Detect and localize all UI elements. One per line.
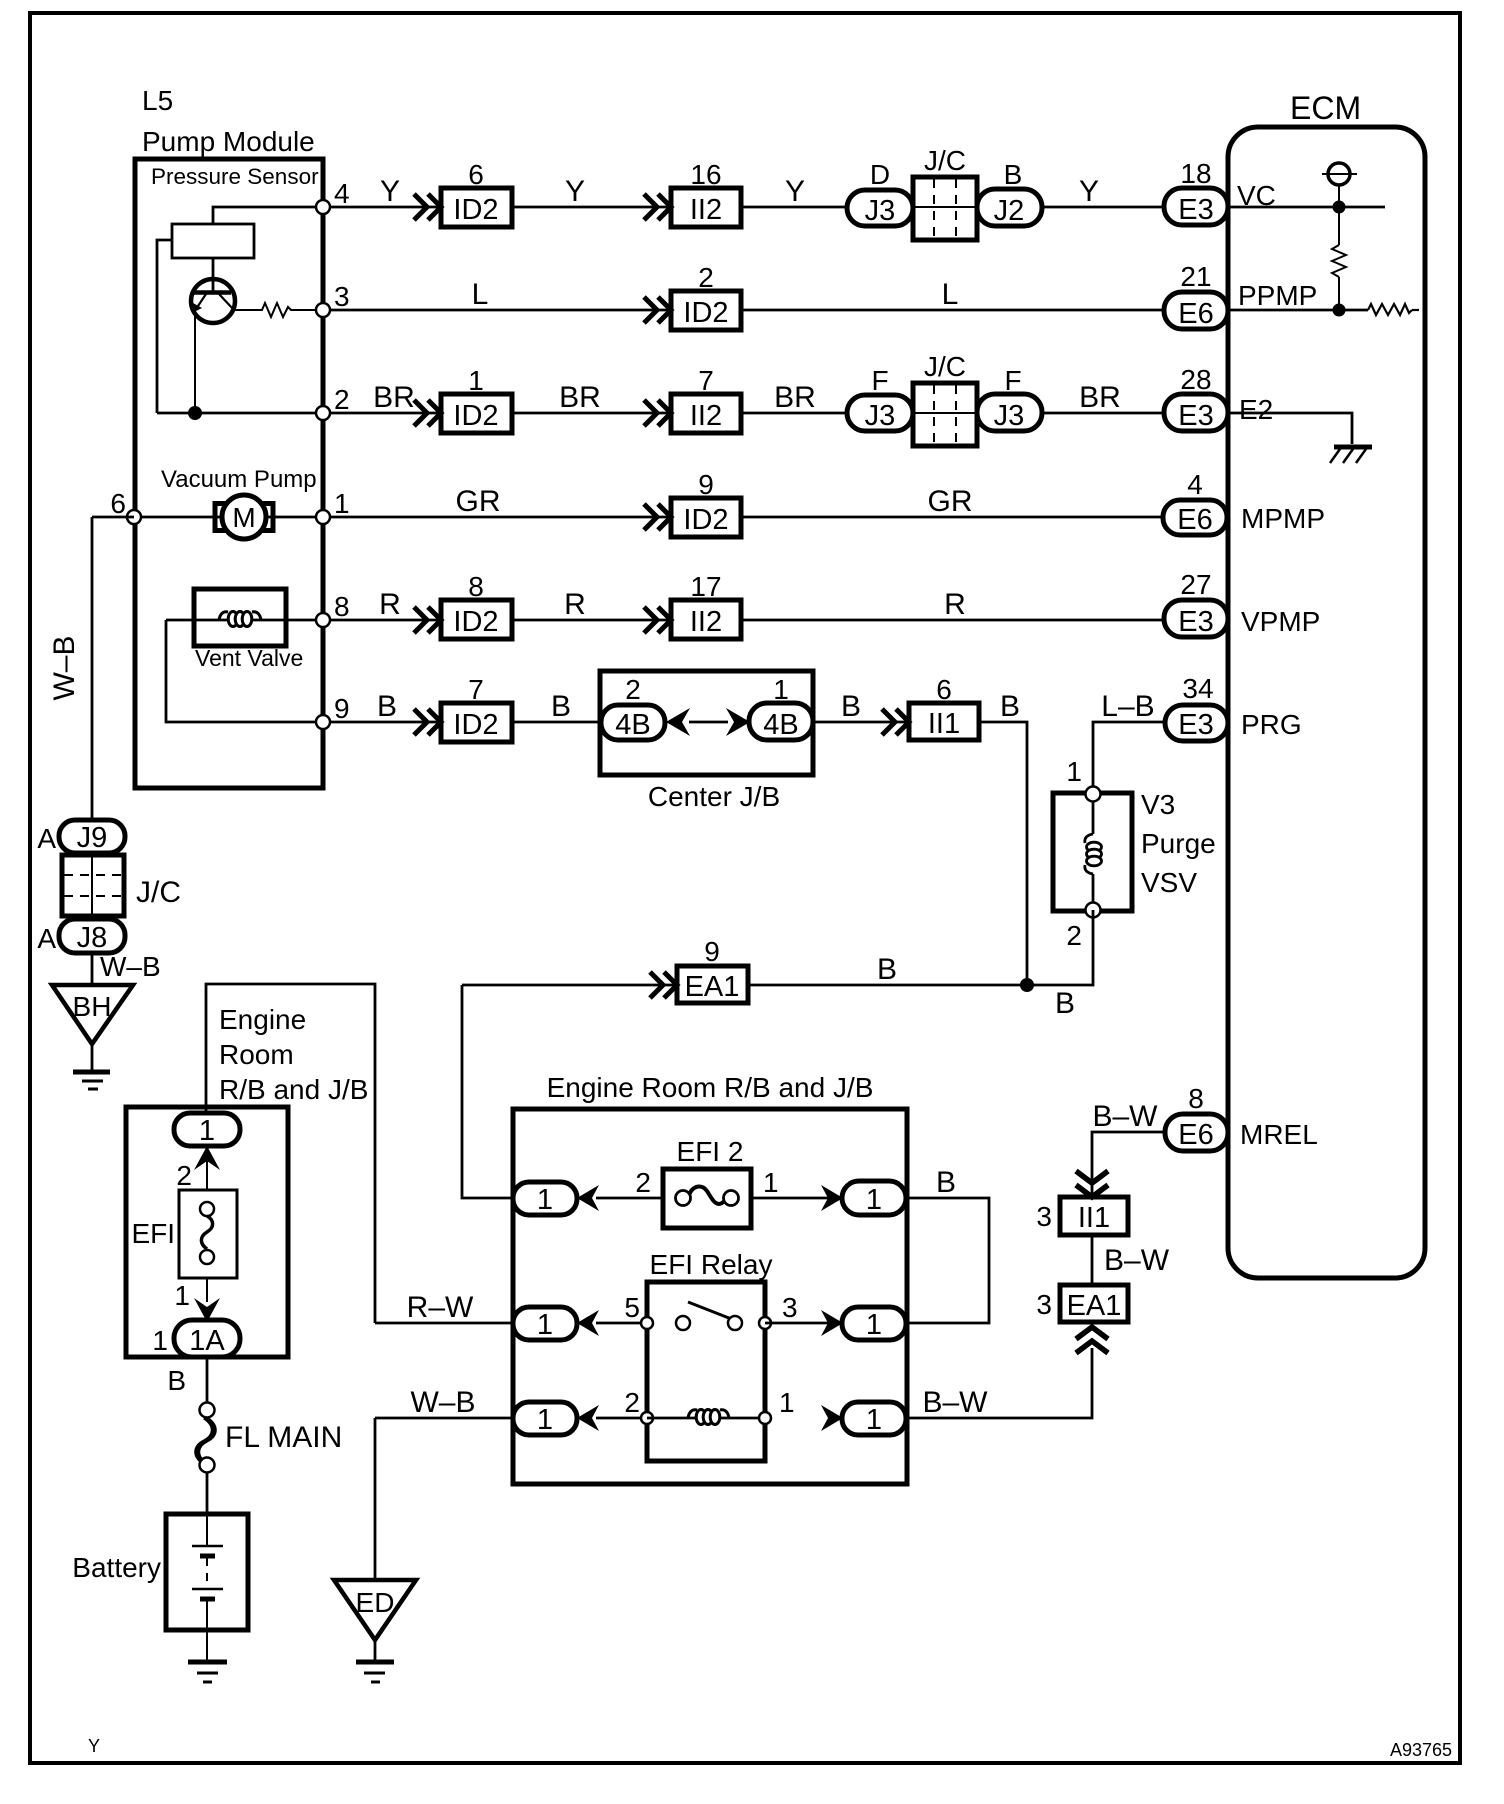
svg-text:W–B: W–B [100, 951, 161, 982]
wire sensor left to ground bus [157, 240, 172, 413]
svg-text:ED: ED [356, 1587, 395, 1618]
connector II1 MREL [1060, 1197, 1128, 1235]
node pin 2 [316, 406, 330, 420]
center J/B box [600, 671, 813, 775]
svg-text:GR: GR [456, 485, 501, 518]
arrow up to connector 1 [206, 1146, 208, 1190]
junction dot VC [1333, 201, 1346, 214]
svg-text:1: 1 [537, 1309, 553, 1341]
svg-text:BR: BR [373, 381, 415, 414]
chevron down MREL [1076, 1171, 1108, 1197]
svg-text:M: M [232, 502, 255, 533]
chevron before EA1 [650, 972, 677, 998]
svg-text:B: B [377, 690, 397, 723]
arrow left relay switch [577, 1310, 599, 1336]
arrow right relay coil [821, 1405, 843, 1431]
junction connector J/C left [62, 855, 124, 916]
svg-text:BR: BR [1079, 381, 1121, 414]
svg-text:B: B [877, 953, 897, 986]
connector 1 top of EFI [174, 1113, 240, 1146]
svg-text:II2: II2 [690, 606, 722, 638]
transistor collector [219, 294, 233, 309]
junction dot sensor ground [188, 406, 202, 420]
wire row5 node8 to ID2 [330, 619, 441, 622]
wire row6 node9 to ID2 [330, 721, 441, 724]
VSV node 1 [1086, 787, 1101, 802]
wire row4 node1 to ID2 [330, 516, 671, 519]
ground triangle BH [52, 985, 133, 1044]
wire EFI top path [206, 984, 375, 1323]
connector ID2 row5 [441, 600, 512, 639]
svg-text:9: 9 [704, 936, 720, 967]
purge VSV box [1053, 793, 1132, 911]
svg-text:28: 28 [1180, 364, 1211, 395]
svg-text:18: 18 [1180, 158, 1211, 189]
svg-text:E6: E6 [1178, 298, 1213, 330]
svg-text:E6: E6 [1177, 504, 1212, 536]
wire EA1 riser to relay row [904, 1348, 1092, 1418]
battery cells [206, 1514, 208, 1546]
svg-text:ID2: ID2 [683, 297, 728, 329]
svg-text:7: 7 [468, 674, 484, 705]
wire row2 node3 to ID2 [330, 309, 671, 312]
svg-text:R: R [564, 588, 586, 621]
pin E6 MREL [1165, 1114, 1228, 1151]
arrow right relay switch [821, 1310, 843, 1336]
arrow right EFI2 [821, 1185, 843, 1211]
relay switch contact left [676, 1316, 690, 1330]
arrow into 4B left [666, 708, 690, 736]
ECM power source circle [1328, 163, 1350, 185]
svg-text:EFI Relay: EFI Relay [650, 1249, 773, 1280]
svg-text:4B: 4B [615, 709, 650, 741]
svg-text:E3: E3 [1178, 194, 1213, 226]
chevron row2 col B [644, 297, 671, 323]
ECM pullup resistor vertical [1332, 245, 1346, 277]
wire VSV2 down to B bus [1027, 910, 1093, 985]
wire L-B to PRG [1093, 722, 1165, 794]
svg-text:1: 1 [174, 1280, 190, 1311]
connector 1A [174, 1320, 240, 1357]
engine room R/B and J/B big box [513, 1109, 907, 1484]
svg-text:W–B: W–B [410, 1386, 475, 1419]
connector ID2 row3 [441, 394, 512, 433]
connector 1 relay coil left [513, 1402, 577, 1435]
connector II2 row1 [671, 188, 741, 227]
relay coil node right [759, 1412, 771, 1424]
transistor emitter with arrow [196, 294, 206, 309]
svg-text:ID2: ID2 [453, 400, 498, 432]
pin E3 row1 [1164, 188, 1228, 225]
wire row2 ID2 to E6 [741, 309, 1164, 312]
wire W-B vertical [91, 517, 94, 820]
pump module box [135, 159, 323, 788]
svg-text:Battery: Battery [72, 1552, 161, 1583]
connector ID2 row6 [441, 703, 512, 742]
connector ID2 row2 [671, 291, 741, 330]
svg-text:1: 1 [468, 365, 484, 396]
ECM resistor horizontal PPMP [1368, 304, 1412, 315]
connector ID2 row1 [441, 188, 512, 227]
svg-text:4: 4 [1187, 469, 1203, 500]
svg-text:J/C: J/C [924, 145, 966, 176]
svg-text:B: B [1055, 987, 1075, 1020]
connector 1 EFI2 left [513, 1182, 577, 1215]
connector J3 row3 left [847, 395, 913, 431]
svg-text:2: 2 [698, 262, 714, 293]
connector 1 relay switch left [513, 1307, 577, 1340]
svg-text:1: 1 [199, 1115, 215, 1147]
svg-text:V3: V3 [1141, 789, 1175, 820]
node pin 1 [316, 510, 330, 524]
svg-text:B: B [167, 1365, 186, 1396]
svg-text:B: B [1004, 159, 1023, 190]
svg-text:B: B [1000, 690, 1020, 723]
wire vent valve row 8 [166, 619, 323, 622]
svg-text:4B: 4B [763, 709, 798, 741]
svg-text:J/C: J/C [924, 351, 966, 382]
relay coil [688, 1410, 697, 1418]
wire row1 ID2 to II2 [512, 206, 671, 209]
svg-text:R–W: R–W [407, 1291, 474, 1324]
EFI fuse element [200, 1202, 214, 1216]
svg-text:L–B: L–B [1101, 690, 1154, 723]
svg-text:1: 1 [866, 1184, 882, 1216]
svg-text:EA1: EA1 [685, 971, 740, 1003]
junction dot B bus [1020, 978, 1034, 992]
svg-text:21: 21 [1180, 261, 1211, 292]
resistor sensor output [234, 303, 323, 317]
ground symbol ED [356, 1660, 394, 1665]
svg-text:F: F [871, 365, 888, 396]
svg-text:8: 8 [1188, 1083, 1204, 1114]
svg-text:ID2: ID2 [453, 709, 498, 741]
svg-text:MPMP: MPMP [1241, 503, 1325, 534]
VSV node 2 [1086, 903, 1101, 918]
wire row5 II2 to E3 [741, 619, 1164, 622]
svg-text:1: 1 [152, 1325, 168, 1356]
svg-text:L: L [472, 278, 489, 311]
vacuum pump motor circle [222, 495, 266, 539]
connector J8 [59, 919, 125, 953]
connector 4B left [601, 705, 665, 740]
svg-text:6: 6 [468, 159, 484, 190]
ground triangle ED [334, 1580, 416, 1640]
EFI fuse inner box [179, 1190, 237, 1278]
wire relay switch right [765, 1322, 842, 1325]
svg-text:L5: L5 [142, 85, 173, 116]
wire sensor ground row [157, 412, 323, 415]
wire ED riser [374, 1418, 377, 1580]
svg-text:Y: Y [785, 175, 805, 208]
svg-text:1: 1 [773, 674, 789, 705]
EFI 2 fuse box [663, 1169, 751, 1228]
svg-text:J8: J8 [77, 922, 108, 954]
emitter lead wire [194, 311, 196, 413]
wire 1A down [206, 1357, 209, 1403]
wire to battery [206, 1472, 209, 1514]
svg-text:EFI: EFI [131, 1218, 175, 1249]
svg-text:1: 1 [537, 1404, 553, 1436]
svg-text:1: 1 [866, 1404, 882, 1436]
svg-text:PPMP: PPMP [1238, 280, 1317, 311]
VSV coil [1092, 801, 1095, 834]
wire between 4B arrows [689, 721, 728, 724]
wire W-B to relay coil [375, 1417, 513, 1420]
svg-text:L: L [942, 278, 959, 311]
svg-text:6: 6 [936, 674, 952, 705]
svg-text:2: 2 [625, 674, 641, 705]
svg-text:1: 1 [334, 488, 350, 519]
svg-text:E3: E3 [1178, 606, 1213, 638]
vacuum pump motor brackets [215, 504, 227, 531]
svg-text:Y: Y [380, 175, 400, 208]
FL MAIN fusible link [200, 1403, 215, 1418]
ground symbol battery [188, 1660, 227, 1665]
transistor circle [191, 279, 235, 323]
ECM box [1228, 127, 1425, 1278]
relay switch contact right [728, 1316, 742, 1330]
wire EFI2 left [596, 1197, 663, 1200]
arrow left relay coil [577, 1405, 599, 1431]
wire BH to ground [91, 1044, 94, 1072]
svg-text:Engine Room R/B and J/B: Engine Room R/B and J/B [547, 1072, 874, 1103]
chevron row5 col B [644, 607, 671, 633]
wire relay switch left [596, 1322, 647, 1325]
svg-text:2: 2 [176, 1160, 192, 1191]
svg-text:3: 3 [1036, 1289, 1052, 1320]
svg-text:1: 1 [779, 1387, 795, 1418]
EFI fuse block box [126, 1107, 288, 1357]
svg-text:A93765: A93765 [1390, 1740, 1452, 1760]
chevron row4 col B [644, 504, 671, 530]
wire J8 to BH [91, 953, 94, 985]
relay coil wire [647, 1417, 765, 1420]
svg-text:9: 9 [334, 693, 350, 724]
chassis ground E2 [1334, 445, 1372, 450]
svg-text:Vent Valve: Vent Valve [195, 645, 303, 671]
ECM wire E2 to ground [1228, 413, 1352, 444]
wire EFI2 right [751, 1197, 842, 1200]
chevron row5 col A [414, 607, 441, 633]
junction connector J/C row1 [913, 177, 977, 240]
wire II1 out and down [979, 722, 1027, 985]
svg-text:Room: Room [219, 1039, 294, 1070]
wire row1 II2 to J3 [741, 206, 847, 209]
wire row6 ID2 to Center J/B [512, 721, 601, 724]
chevron row1 col B [644, 194, 671, 220]
EFI relay box [647, 1282, 765, 1461]
vent valve box [194, 589, 286, 646]
svg-text:1: 1 [1066, 756, 1082, 787]
pressure sensor element [172, 224, 254, 258]
svg-text:ID2: ID2 [453, 606, 498, 638]
svg-text:A: A [37, 823, 56, 854]
svg-text:R: R [379, 588, 401, 621]
svg-text:E3: E3 [1178, 709, 1213, 741]
svg-text:2: 2 [635, 1167, 651, 1198]
pin E3 row3 [1164, 394, 1228, 431]
svg-text:Pressure Sensor: Pressure Sensor [151, 164, 319, 189]
chevron up below EA1 [1076, 1327, 1108, 1353]
EFI2 fuse element [689, 1186, 726, 1203]
vent valve coil [219, 612, 228, 620]
svg-text:1: 1 [537, 1184, 553, 1216]
node pin 9 [316, 715, 330, 729]
relay switch node right edge [759, 1317, 771, 1329]
svg-text:J3: J3 [865, 400, 896, 432]
svg-text:7: 7 [698, 365, 714, 396]
svg-text:B–W: B–W [1092, 1100, 1158, 1133]
svg-text:J2: J2 [994, 195, 1025, 227]
relay switch blade [688, 1302, 734, 1320]
wire relay coil left [596, 1417, 647, 1420]
wire II1 to EA1 [1091, 1235, 1094, 1285]
svg-text:Purge: Purge [1141, 828, 1216, 859]
connector J2 row1 [977, 189, 1042, 226]
connector 1 EFI2 right [842, 1181, 906, 1215]
connector EA1 MREL [1060, 1285, 1128, 1322]
svg-text:II1: II1 [1078, 1202, 1110, 1234]
svg-text:Vacuum Pump: Vacuum Pump [161, 466, 317, 493]
svg-text:Center J/B: Center J/B [648, 781, 780, 812]
chevron row3 col B [644, 400, 671, 426]
pin E3 PRG [1165, 705, 1228, 741]
chevron row1 col A [414, 194, 441, 220]
svg-text:3: 3 [334, 281, 350, 312]
arrow into 4B right [726, 708, 750, 736]
wire sensor top to pin 4 [213, 207, 323, 224]
pin E3 row5 [1164, 600, 1228, 637]
wire row5 ID2 to II2 [512, 619, 671, 622]
wire B riser to EFI2 row [462, 985, 513, 1198]
svg-text:3: 3 [782, 1292, 798, 1323]
svg-text:2: 2 [1066, 920, 1082, 951]
svg-text:B–W: B–W [922, 1386, 988, 1419]
battery box [166, 1514, 248, 1630]
svg-text:27: 27 [1180, 569, 1211, 600]
wire row pin1 inside [135, 516, 323, 519]
wire row6 CenterJB to II1 [813, 721, 909, 724]
svg-text:BR: BR [774, 381, 816, 414]
svg-text:Y: Y [1079, 175, 1099, 208]
connector 1 relay coil right [842, 1402, 906, 1435]
connector J3 row3 right [977, 394, 1042, 431]
svg-text:2: 2 [334, 384, 350, 415]
svg-text:Pump Module: Pump Module [142, 126, 315, 157]
svg-text:FL MAIN: FL MAIN [225, 1421, 342, 1454]
arrow left EFI2 [577, 1185, 599, 1211]
connector 1 relay switch right [842, 1307, 906, 1340]
arrow down to 1A [206, 1278, 208, 1302]
svg-text:D: D [870, 159, 890, 190]
wire row4 ID2 to E6 [741, 516, 1163, 519]
svg-text:1: 1 [866, 1309, 882, 1341]
node pin 6 [127, 510, 141, 524]
svg-text:2: 2 [624, 1387, 640, 1418]
wire node6 to W-B drop [92, 516, 134, 519]
svg-text:E3: E3 [1178, 400, 1213, 432]
svg-text:1: 1 [763, 1167, 779, 1198]
connector ID2 row4 [671, 498, 741, 537]
wire R-W to relay [375, 1322, 513, 1325]
connector II2 row5 [671, 600, 741, 639]
wire row1 J2 to E3 [1042, 206, 1164, 209]
svg-text:16: 16 [690, 159, 721, 190]
ECM vertical pullup lead [1338, 185, 1340, 245]
svg-text:EA1: EA1 [1067, 1290, 1122, 1322]
svg-text:F: F [1004, 365, 1021, 396]
svg-text:Y: Y [565, 175, 585, 208]
svg-text:VSV: VSV [1141, 867, 1197, 898]
svg-text:ID2: ID2 [683, 504, 728, 536]
svg-text:Y: Y [88, 1736, 100, 1756]
svg-text:PRG: PRG [1241, 709, 1302, 740]
wire EFI2 out to riser [906, 1198, 989, 1323]
svg-text:BH: BH [73, 991, 112, 1022]
connector 4B right [749, 703, 813, 740]
svg-text:B–W: B–W [1104, 1244, 1170, 1277]
svg-text:J3: J3 [994, 400, 1025, 432]
svg-text:R: R [944, 588, 966, 621]
pin E6 row2 [1164, 292, 1228, 329]
connector EA1 row B [677, 966, 748, 1003]
svg-text:E2: E2 [1239, 394, 1273, 425]
ground symbol BH [73, 1070, 110, 1075]
node pin 4 [316, 200, 330, 214]
svg-text:J/C: J/C [136, 876, 181, 909]
svg-text:9: 9 [698, 469, 714, 500]
connector J9 [59, 820, 125, 853]
junction dot PPMP [1333, 304, 1346, 317]
wire row3 ID2 to II2 [512, 412, 671, 415]
svg-text:34: 34 [1182, 673, 1213, 704]
wire vent valve to pin 9 [166, 620, 323, 722]
wire sensor base lead [212, 258, 215, 292]
svg-text:1A: 1A [189, 1325, 225, 1357]
chevron row3 col A [414, 400, 441, 426]
svg-text:ECM: ECM [1290, 90, 1361, 126]
svg-text:W–B: W–B [48, 635, 81, 700]
svg-text:ID2: ID2 [453, 194, 498, 226]
svg-text:VPMP: VPMP [1241, 606, 1320, 637]
svg-text:BR: BR [559, 381, 601, 414]
node pin 3 [316, 303, 330, 317]
svg-text:MREL: MREL [1240, 1119, 1318, 1150]
svg-text:B: B [936, 1166, 956, 1199]
svg-text:II2: II2 [690, 400, 722, 432]
svg-text:17: 17 [690, 571, 721, 602]
svg-text:6: 6 [110, 488, 126, 519]
svg-text:4: 4 [334, 178, 350, 209]
wire MREL row [1092, 1132, 1165, 1196]
node pin 8 [316, 613, 330, 627]
junction connector J/C row3 [913, 383, 977, 446]
svg-text:B: B [551, 690, 571, 723]
ECM wire VC stub [1228, 206, 1385, 209]
svg-text:II1: II1 [928, 708, 960, 740]
wire row1 node4 to ID2 [330, 206, 441, 209]
transistor base bar [194, 290, 231, 295]
relay coil node left [641, 1412, 653, 1424]
wire B bus to EA1 [748, 984, 1027, 987]
connector II2 row3 [671, 394, 741, 433]
svg-text:II2: II2 [690, 194, 722, 226]
svg-text:Engine: Engine [219, 1004, 306, 1035]
wire row3 II2 to J3 [741, 412, 847, 415]
pin E6 row4 [1163, 500, 1227, 535]
svg-text:R/B and J/B: R/B and J/B [219, 1074, 368, 1105]
